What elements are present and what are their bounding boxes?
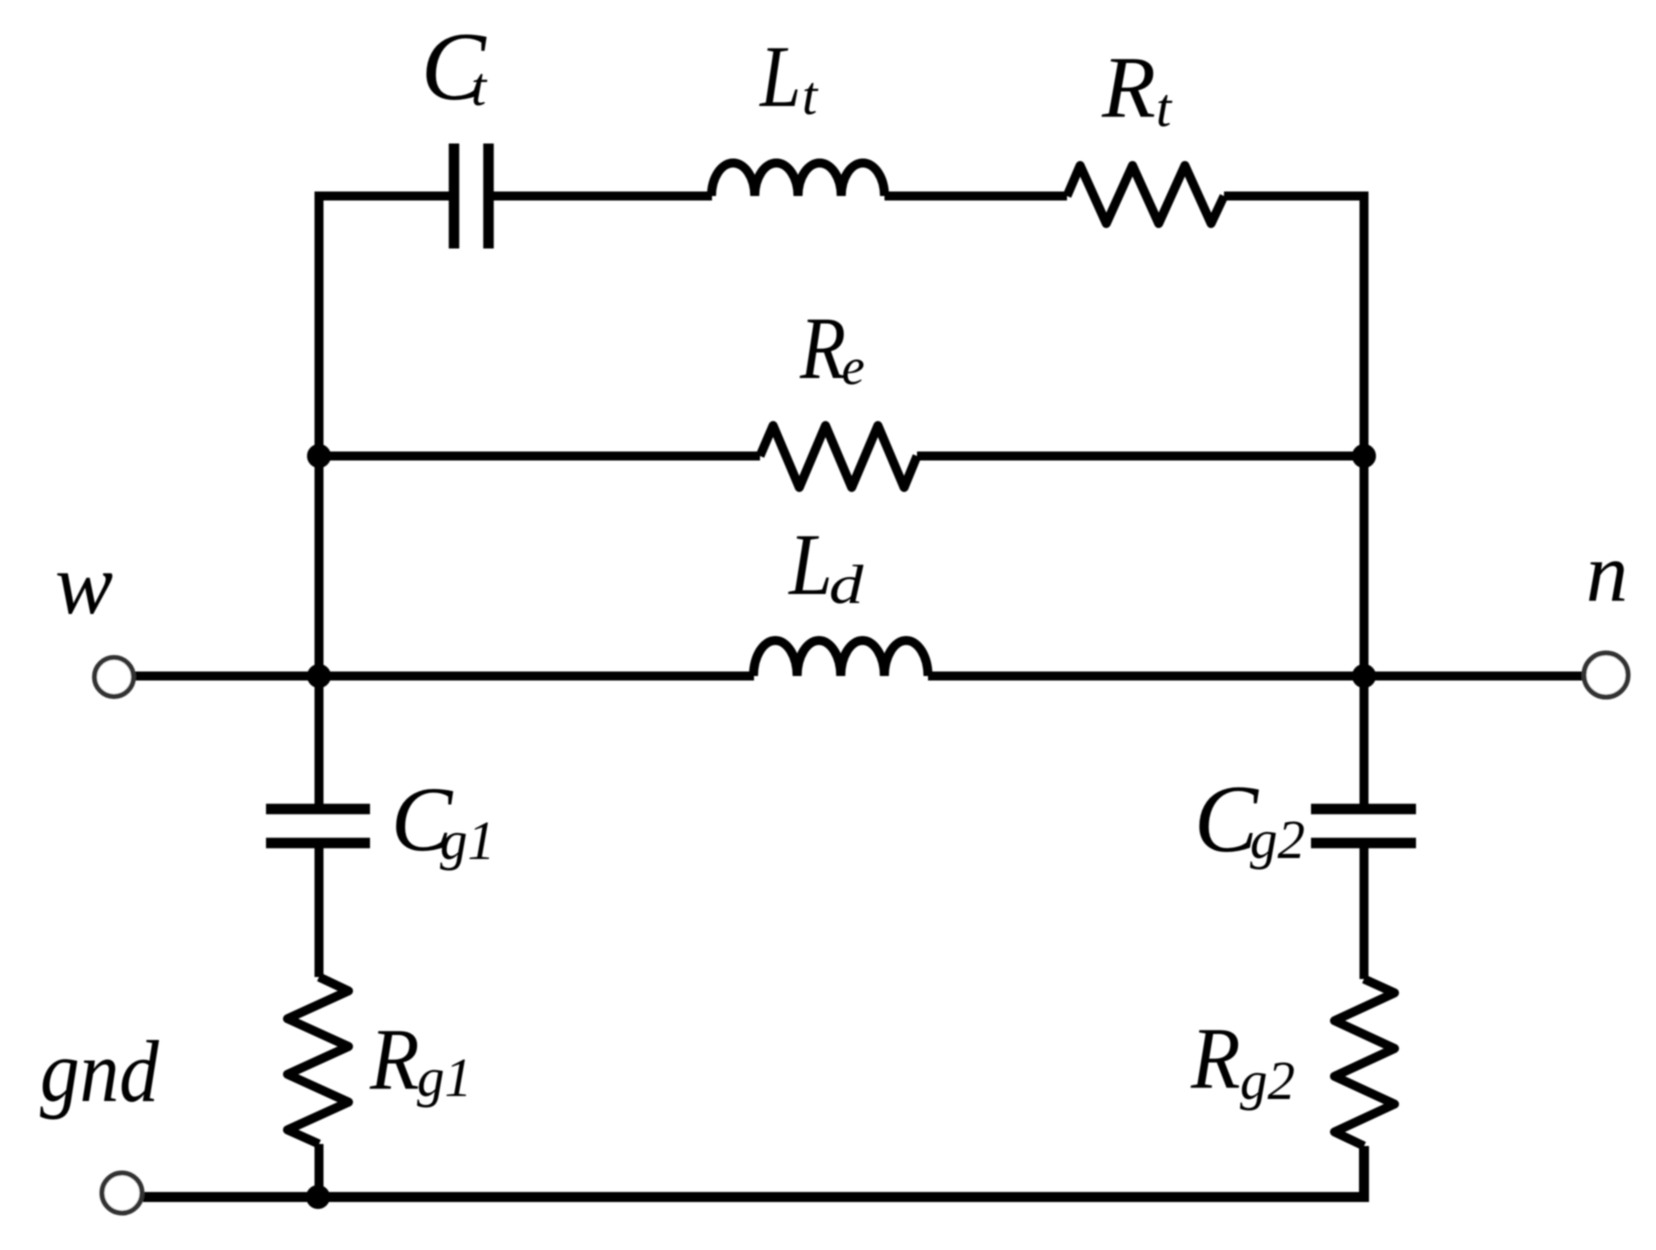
svg-text:gnd: gnd (40, 1023, 160, 1121)
svg-text:g1: g1 (440, 810, 495, 871)
svg-text:w: w (55, 535, 113, 632)
svg-text:R: R (369, 1012, 419, 1109)
svg-text:t: t (802, 65, 819, 126)
svg-text:d: d (829, 555, 864, 615)
svg-text:R: R (799, 299, 846, 397)
svg-text:t: t (471, 56, 488, 117)
svg-text:g2: g2 (1250, 809, 1305, 870)
svg-text:R: R (1190, 1011, 1240, 1108)
svg-text:e: e (842, 339, 865, 396)
svg-text:L: L (788, 517, 832, 614)
svg-text:n: n (1586, 527, 1628, 620)
svg-text:g2: g2 (1240, 1050, 1295, 1111)
svg-text:R: R (1101, 40, 1156, 137)
svg-text:L: L (759, 28, 801, 125)
svg-text:g1: g1 (417, 1047, 472, 1108)
svg-text:t: t (1156, 77, 1173, 138)
